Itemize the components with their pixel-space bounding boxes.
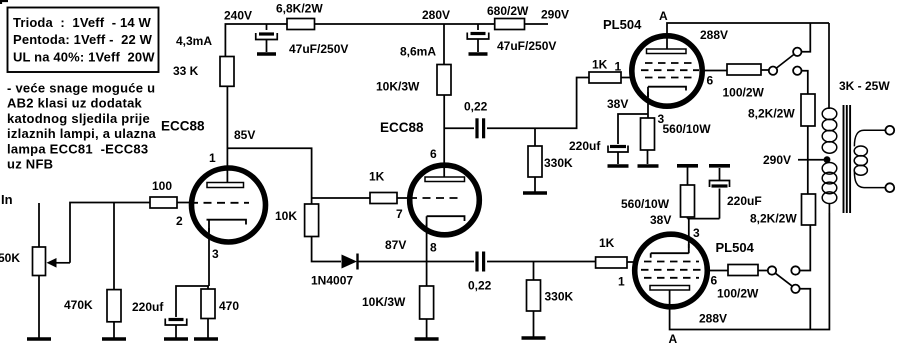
wire diode to 87V line [359,261,475,263]
wire V2 plate lead [443,95,445,177]
wire rail to 680 resistor [444,23,495,25]
svg-text:4,3mA: 4,3mA [176,34,212,48]
wire 100/2W-2 to switch common [758,270,768,272]
svg-text:uz NFB: uz NFB [7,157,53,172]
wire 1K to V4 grid [627,261,636,263]
wire V2 cathode to 87V line [426,224,428,262]
border artifact top-left [0,0,8,4]
wire cathode branch to 220uf [176,286,209,317]
ground pot [27,337,51,341]
svg-text:560/10W: 560/10W [621,197,670,211]
svg-text:10K/3W: 10K/3W [362,295,406,309]
wire 560-2 to ground [687,167,689,185]
svg-text:470K: 470K [64,298,93,312]
tube V1 cathode [207,220,247,232]
tube V1 grid [190,202,249,204]
svg-text:330K: 330K [544,156,573,170]
svg-text:0,22: 0,22 [464,100,488,114]
capacitor 220uF lower PL504 [710,181,730,188]
tube V4 anode [650,286,690,291]
svg-text:6,8K/2W: 6,8K/2W [276,2,323,16]
wire pin8 node to 10K/3W [426,262,428,287]
resistor 100/2W lower [728,265,758,276]
svg-text:Trioda : 1Veff - 14 W: Trioda : 1Veff - 14 W [13,15,152,30]
wire 220uf-3 to ground [617,153,619,165]
tube V4 grid 1 [644,261,699,263]
switch S1 common contact [769,67,777,75]
wire 560 to ground [647,150,649,164]
svg-text:1: 1 [615,60,622,74]
svg-text:280V: 280V [422,8,450,22]
wire S2 upper contact to 8,2K-2 [800,225,811,271]
wire 1K to V3 grid [621,77,633,79]
tube V3 grid 1 [645,62,696,64]
tube V2 grid [409,197,462,199]
switch S2 blade [776,273,792,286]
switch S1 blade [777,55,794,69]
potentiometer 50K body [33,247,46,276]
svg-text:UL na 40%: 1Veff 20W: UL na 40%: 1Veff 20W [13,50,155,65]
ground 470 [194,337,218,341]
svg-text:38V: 38V [607,97,628,111]
wire 330K-1 to ground [534,177,536,192]
switch S2 upper contact [791,266,799,274]
tube V3 PL504 envelope [632,36,702,106]
wire 47uF-1 to ground [266,40,268,53]
resistor 6,8K/2W [287,19,315,30]
svg-text:50K: 50K [0,251,20,265]
svg-text:A: A [669,332,678,346]
wire node to 1K splitter grid [312,197,370,199]
svg-text:100/2W: 100/2W [717,287,759,301]
wire 85V branch [227,148,311,204]
resistor 8,2K/2W upper [801,94,815,126]
ground 47uF-1 [257,52,276,56]
resistor 1K upper PL504 [589,72,621,83]
tube V2 plate [425,177,465,182]
svg-text:47uF/250V: 47uF/250V [497,39,556,53]
ground 330K-1 [523,191,547,195]
svg-text:7: 7 [396,207,403,221]
tube V3 grid 3 [645,77,696,79]
wire 38V branch to 220uf [618,114,648,144]
wire 280V node down [443,24,445,65]
tube V3 grid 2 [641,69,699,71]
potentiometer wiper arrow [54,262,70,264]
svg-text:0,22: 0,22 [468,279,492,293]
svg-text:PL504: PL504 [603,17,642,32]
tube V4 cathode [651,244,689,258]
svg-text:87V: 87V [385,238,406,252]
switch S1 upper contact [793,48,801,56]
wire V1 cathode down [208,228,210,286]
wire 220uf to ground [175,325,177,338]
switch S1 lower contact [793,67,801,75]
wire 100 to V1 grid [177,202,190,204]
wire V4 pin6 to 100 resistor [705,270,728,272]
ground 470K [102,337,126,341]
svg-text:288V: 288V [700,28,728,42]
wire 10K to diode line [312,237,341,262]
svg-text:3: 3 [212,247,219,261]
tube V1 plate [207,183,244,188]
svg-text:In: In [1,192,13,207]
resistor 560/10W upper [641,118,655,150]
wire V4 cathode up [688,219,690,248]
svg-text:1K: 1K [592,58,608,72]
svg-text:220uf: 220uf [132,300,164,314]
capacitor 220uf upper PL504 [608,146,628,153]
wire 240V rail segment 1 [225,24,287,57]
output terminal upper [885,126,894,135]
wire V3 cathode down [647,92,649,118]
wire 10K/3W-2 to ground [426,319,428,338]
svg-text:izlaznih lampi, a ulazna: izlaznih lampi, a ulazna [7,126,157,141]
svg-text:100/2W: 100/2W [723,86,765,100]
capacitor 0,22 bottom [477,252,484,272]
junction dot 290V tap [824,156,831,163]
resistor 100 [150,197,177,208]
wire cathode net horizontal [688,218,720,220]
svg-text:330K: 330K [545,290,574,304]
wire 290V stub [525,23,549,25]
svg-text:10K: 10K [275,209,297,223]
resistor 1K splitter grid [370,193,397,204]
wire input top [38,203,40,247]
wire 47uF-2 to ground [477,40,479,53]
wire S2 lower contact to A rail [800,289,811,330]
output terminal lower [885,183,894,192]
svg-text:A: A [659,9,668,23]
svg-text:8: 8 [430,241,437,255]
wire 100/2W to switch common [761,69,769,71]
wire 1K to V2 grid [397,197,409,199]
resistor 100/2W upper [727,64,761,75]
svg-text:33 K: 33 K [173,64,199,78]
svg-text:6: 6 [711,274,718,288]
svg-text:ECC88: ECC88 [161,119,205,134]
capacitor 0,22 top [477,118,484,138]
svg-text:1K: 1K [599,236,615,250]
spec box [8,8,159,73]
svg-text:PL504: PL504 [716,240,755,255]
wire 0,22 top right [487,78,589,129]
ground 560 upper [638,164,659,168]
svg-text:38V: 38V [650,213,671,227]
ground 10K/3W-2 [415,337,439,341]
svg-text:1N4007: 1N4007 [311,274,353,288]
svg-text:2: 2 [176,214,183,228]
ground 220uf V1 [164,337,188,341]
svg-text:ECC88: ECC88 [380,120,424,135]
wire 47uF-1 lead [266,24,268,30]
wire 47uF-2 lead [477,24,479,30]
transformer secondary winding [854,130,885,187]
svg-text:3K - 25W: 3K - 25W [839,79,890,93]
resistor 470K [107,290,121,322]
tube V4 grid 3 [644,277,699,279]
svg-text:220uf: 220uf [569,139,601,153]
svg-text:lampa ECC81 -ECC83: lampa ECC81 -ECC83 [7,141,148,156]
transformer primary upper winding [822,23,837,153]
wire wiper riser [70,203,150,263]
wire rail 6,8K to 280V node [315,23,445,25]
resistor 33K [220,57,234,87]
wire 330K-2 junction [533,262,535,281]
wire 560-2 stub [687,217,689,219]
svg-text:240V: 240V [224,9,252,23]
wire S1 lower contact to 8,2K [802,71,808,94]
wire cathode to 470 [207,286,209,289]
tube V3 anode [647,49,687,54]
wire 470K to ground [113,322,115,338]
wire V3 anode to A rail [667,23,829,49]
svg-text:1K: 1K [369,170,385,184]
wire 330K-2 to ground [533,311,535,337]
resistor 470 [201,289,215,319]
resistor 560/10W lower [681,185,695,217]
resistor 1K lower PL504 [596,257,627,268]
transformer primary lower winding [822,163,837,214]
svg-text:100: 100 [152,179,172,193]
resistor 330K second [527,280,541,311]
wire 33K to V1 plate [226,86,228,182]
wire 220uF-2 top lead [719,168,721,181]
svg-text:1: 1 [209,151,216,165]
wire 220uF-2 bottom lead [719,189,721,219]
resistor 10K/3W first [437,65,451,96]
ground 330K-2 [522,336,546,340]
resistor 680/2W [495,19,525,30]
resistor 10K [305,204,319,237]
svg-text:560/10W: 560/10W [663,122,712,136]
ground 220uF lower [709,164,730,168]
wire 8,2K chain [807,126,809,194]
svg-text:1: 1 [618,275,625,289]
tube V3 cathode [648,87,686,97]
svg-text:AB2 klasi uz dodatak: AB2 klasi uz dodatak [7,96,143,111]
wire junction to 470K [113,203,115,290]
wire 0,22 bottom right [487,261,596,263]
svg-text:470: 470 [219,299,239,313]
svg-text:6: 6 [430,147,437,161]
tube V1 ECC88 envelope [192,168,266,242]
wire 290V tap [798,159,827,161]
svg-text:290V: 290V [541,8,569,22]
wire 470 to ground [207,319,209,339]
wire pot bottom to ground [38,276,40,339]
wire V3 pin6 to 100 resistor [702,70,727,72]
ground 560 lower [677,164,698,168]
svg-text:8,2K/2W: 8,2K/2W [750,212,797,226]
svg-text:8,6mA: 8,6mA [400,45,436,59]
ground 220uf upper [608,164,629,168]
svg-text:8,2K/2W: 8,2K/2W [748,107,795,121]
resistor 10K/3W second [420,286,434,319]
capacitor 47uF/250V first [256,33,278,40]
wire 330K-1 junction [534,128,536,146]
svg-text:3: 3 [693,226,700,240]
wire 0,22 top left [444,127,474,129]
tube V4 grid 2 [641,269,702,271]
diode 1N4007 [342,255,358,269]
svg-text:85V: 85V [234,128,255,142]
switch S2 common contact [768,266,776,274]
tube V2 ECC88 envelope [410,165,480,235]
svg-text:- veće snage moguće u: - veće snage moguće u [7,81,155,96]
resistor 330K first [528,146,542,177]
svg-text:6: 6 [707,74,714,88]
svg-text:Pentoda: 1Veff - 22 W: Pentoda: 1Veff - 22 W [13,32,153,47]
capacitor 220uf cathode V1 [165,319,187,326]
transformer core [844,105,851,213]
resistor 8,2K/2W lower [802,194,816,225]
capacitor 47uF/250V second [467,33,489,40]
svg-text:47uF/250V: 47uF/250V [289,42,348,56]
wire V4 anode to A rail bottom [670,213,830,330]
svg-text:680/2W: 680/2W [487,4,529,18]
svg-text:katodnog sljedila prije: katodnog sljedila prije [7,111,150,126]
ground 47uF-2 [469,52,488,56]
tube V2 cathode [427,216,465,228]
svg-text:220uF: 220uF [727,194,762,208]
svg-text:10K/3W: 10K/3W [376,80,420,94]
tube V4 PL504 envelope [635,234,708,307]
wire S1 upper contact to A rail [802,23,811,52]
svg-text:290V: 290V [763,153,791,167]
switch S2 lower contact [791,285,799,293]
svg-text:288V: 288V [699,312,727,326]
